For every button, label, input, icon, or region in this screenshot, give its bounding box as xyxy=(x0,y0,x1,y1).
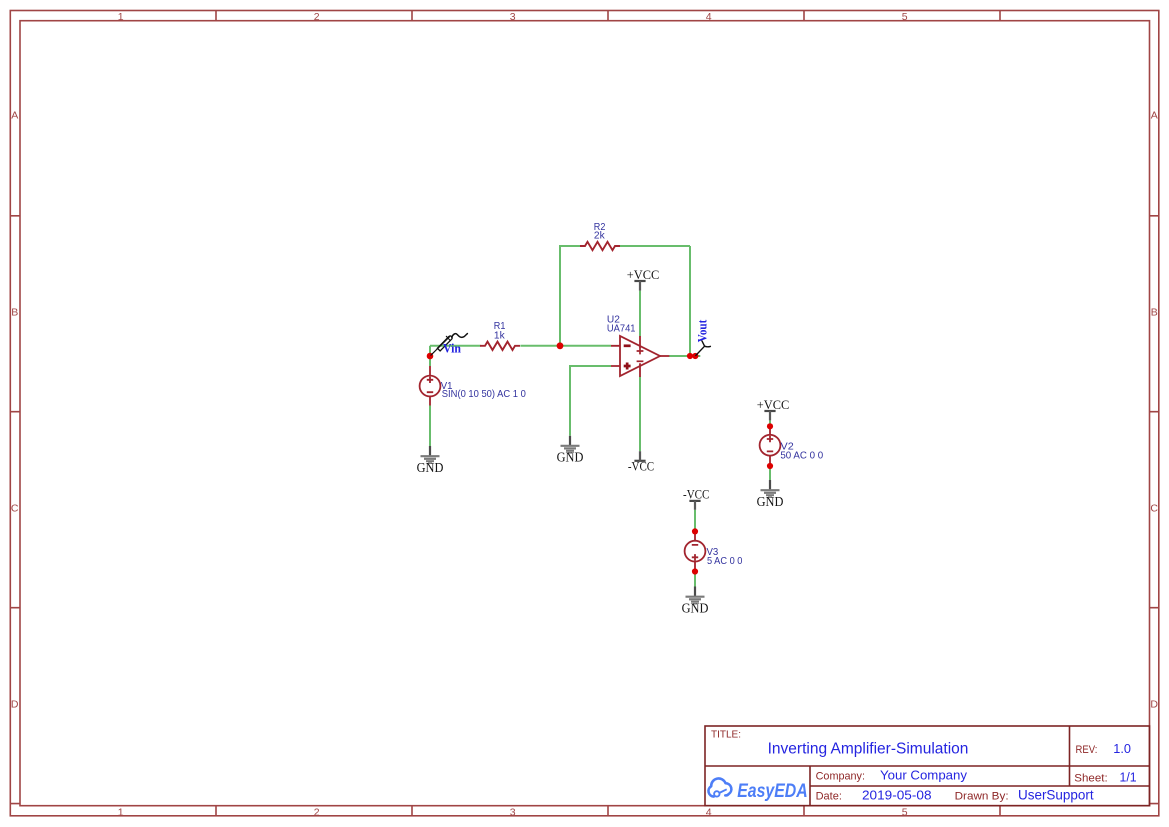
svg-text:B: B xyxy=(1151,306,1158,318)
wire U2 to -VCC flag xyxy=(639,377,641,452)
wire V3 top pin xyxy=(694,510,696,532)
wire feedback right vertical xyxy=(689,246,691,356)
wire U2 output to Vout xyxy=(669,355,700,357)
svg-text:+VCC: +VCC xyxy=(757,397,790,412)
node V3 minus pin xyxy=(692,528,698,534)
svg-text:-VCC: -VCC xyxy=(628,459,654,474)
svg-text:1: 1 xyxy=(118,11,124,23)
svg-text:Vout: Vout xyxy=(694,319,709,342)
ground GND3 under V2 xyxy=(757,480,784,509)
node V2 plus pin xyxy=(767,423,773,429)
svg-text:GND: GND xyxy=(417,460,444,475)
svg-text:GND: GND xyxy=(682,601,709,616)
svg-text:UA741: UA741 xyxy=(607,323,636,334)
node V3 plus pin xyxy=(692,568,698,574)
probe Vout xyxy=(696,341,711,356)
voltage source V3 xyxy=(685,531,706,571)
svg-text:+VCC: +VCC xyxy=(627,267,660,282)
svg-text:4: 4 xyxy=(706,11,712,23)
svg-text:EasyEDA: EasyEDA xyxy=(737,781,808,802)
svg-text:3: 3 xyxy=(510,806,516,818)
svg-text:50 AC 0 0: 50 AC 0 0 xyxy=(780,450,823,461)
ground GND4 under V3 xyxy=(682,587,709,616)
op-amp U2 triangle xyxy=(611,336,669,377)
node V2 minus pin xyxy=(767,463,773,469)
wire R1 to U2 inverting input xyxy=(520,345,611,347)
svg-text:2: 2 xyxy=(314,806,320,818)
op-amp U2 input polarity signs xyxy=(624,346,631,370)
frame column numbers xyxy=(118,11,908,818)
svg-text:Inverting Amplifier-Simulation: Inverting Amplifier-Simulation xyxy=(768,740,969,757)
node output junction xyxy=(687,353,693,359)
wire V2 bottom to GND xyxy=(769,466,771,480)
ground GND1 under V1 xyxy=(417,446,444,475)
svg-text:2019-05-08: 2019-05-08 xyxy=(862,788,932,803)
svg-text:GND: GND xyxy=(557,450,584,465)
EasyEDA logo xyxy=(708,778,807,802)
svg-text:5: 5 xyxy=(902,11,908,23)
svg-text:A: A xyxy=(11,110,18,122)
svg-text:TITLE:: TITLE: xyxy=(711,730,741,741)
node Vin junction xyxy=(427,353,434,360)
svg-text:SIN(0 10 50) AC 1 0: SIN(0 10 50) AC 1 0 xyxy=(442,389,526,400)
wire V1 to GND xyxy=(429,406,431,447)
ground GND2 noninverting input xyxy=(557,436,584,465)
svg-text:C: C xyxy=(11,502,19,514)
power flag +VCC at U2 xyxy=(627,267,660,290)
svg-text:Your Company: Your Company xyxy=(880,768,968,783)
svg-text:REV:: REV: xyxy=(1076,744,1098,756)
node inverting input junction xyxy=(557,342,564,349)
svg-text:D: D xyxy=(1150,698,1158,710)
svg-text:D: D xyxy=(11,698,19,710)
node Vout probe junction xyxy=(692,353,698,359)
svg-text:2k: 2k xyxy=(594,230,606,241)
svg-text:1.0: 1.0 xyxy=(1113,742,1131,756)
frame row letters xyxy=(11,110,1159,711)
svg-text:5 AC 0 0: 5 AC 0 0 xyxy=(707,556,743,567)
resistor R2 xyxy=(580,242,620,250)
svg-text:A: A xyxy=(1151,110,1158,122)
wire feedback top left segment xyxy=(559,245,581,247)
op-amp U2 power polarity signs xyxy=(637,348,644,362)
power flag -VCC at V3 xyxy=(683,487,709,510)
svg-text:C: C xyxy=(1150,502,1158,514)
voltage source V2 xyxy=(760,426,781,466)
svg-text:GND: GND xyxy=(757,494,784,509)
wire feedback top right segment xyxy=(619,245,690,247)
wire +VCC flag to U2 xyxy=(639,291,641,337)
junction dots xyxy=(427,342,773,574)
wire U2 noninverting input to GND xyxy=(570,366,611,436)
svg-text:Date:: Date: xyxy=(816,791,842,803)
svg-text:4: 4 xyxy=(706,806,712,818)
svg-text:2: 2 xyxy=(314,11,320,23)
wire feedback left vertical xyxy=(559,246,561,346)
svg-text:Sheet:: Sheet: xyxy=(1074,773,1107,785)
probe Vin xyxy=(431,334,468,356)
svg-text:Vin: Vin xyxy=(443,341,462,356)
svg-text:B: B xyxy=(11,306,18,318)
power flag -VCC at U2 xyxy=(628,451,654,474)
svg-text:1: 1 xyxy=(118,806,124,818)
voltage source V1 xyxy=(420,366,441,406)
svg-text:Drawn By:: Drawn By: xyxy=(955,791,1009,803)
svg-text:Company:: Company: xyxy=(816,771,865,783)
svg-text:UserSupport: UserSupport xyxy=(1018,788,1094,803)
wire V3 bottom to GND xyxy=(694,572,696,587)
svg-text:-VCC: -VCC xyxy=(683,487,709,502)
wire V2 top pin xyxy=(769,420,771,426)
wire Vin node down to V1 xyxy=(429,346,431,366)
svg-text:5: 5 xyxy=(902,806,908,818)
power flag +VCC at V2 xyxy=(757,397,790,420)
svg-text:1k: 1k xyxy=(494,330,506,341)
svg-text:3: 3 xyxy=(510,11,516,23)
svg-text:1/1: 1/1 xyxy=(1120,771,1137,785)
resistor R1 xyxy=(480,342,520,350)
wire Vin to R1 xyxy=(430,345,481,347)
